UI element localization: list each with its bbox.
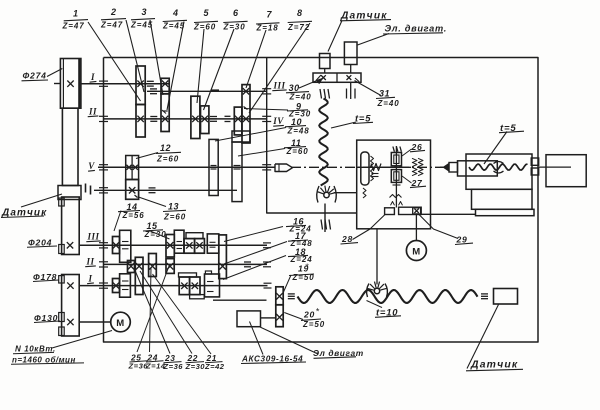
apron to worm vertical shaft (376, 229, 378, 285)
leader 15 (149, 231, 170, 240)
screw hatch lower (321, 220, 323, 230)
svg-text:Z=30: Z=30 (144, 230, 167, 239)
gear 7 tall block (242, 85, 250, 143)
sensor shaft (94, 189, 237, 191)
shaft III lower (79, 244, 267, 246)
electric motor box top (344, 42, 357, 65)
leader 10 (215, 128, 286, 142)
gear 15 (166, 235, 174, 258)
svg-text:Z=60: Z=60 (193, 22, 216, 31)
worm wheel shaft line to apron (334, 192, 357, 194)
clutch feed rod right (481, 293, 488, 295)
gear 13 (126, 180, 139, 200)
shaft IV dash-dot axis (291, 166, 448, 168)
bearing shaft II right wall (262, 115, 271, 117)
gear 27 (391, 170, 401, 183)
svg-text:III: III (86, 232, 99, 242)
leader El dvigat bottom (260, 327, 318, 354)
screw end bearing blocks (531, 158, 539, 165)
sensor box bottom right (494, 289, 518, 305)
leader t=5 left (331, 122, 356, 128)
svg-text:Z=30: Z=30 (185, 362, 206, 371)
pulley F178 F130 (62, 275, 80, 337)
svg-text:20: 20 (303, 310, 315, 320)
gear 31 lower stub (350, 82, 352, 99)
shaft III upper (147, 90, 267, 92)
bearing shaft III upper right wall (262, 88, 271, 90)
apron vertical shaft (395, 146, 397, 208)
shaft I lower (80, 285, 268, 287)
worm wheel (361, 152, 369, 185)
svg-text:Z=40: Z=40 (289, 92, 312, 101)
clutch gear 13 (149, 187, 156, 189)
leader 31 (355, 81, 382, 96)
motor M apron (406, 241, 426, 261)
svg-text:I: I (90, 72, 95, 82)
gear 8 small (234, 107, 242, 135)
gear cluster C1 (113, 279, 120, 293)
gear cluster D1 (179, 277, 189, 295)
bearing shaft II lower right end (263, 261, 271, 263)
marks below gear 27 (393, 184, 401, 186)
screw lower stub (324, 204, 326, 233)
gear cluster E block (205, 274, 220, 297)
gear 26 (391, 153, 401, 166)
svg-text:6: 6 (233, 8, 239, 18)
svg-text:2: 2 (110, 7, 117, 17)
bearing shaft II lower left wall (99, 261, 108, 263)
gear cluster B (207, 234, 219, 253)
svg-text:12: 12 (160, 143, 171, 153)
apron horizontal shaft (357, 166, 411, 168)
bearing sensor shaft left wall (99, 187, 108, 189)
svg-text:Z=18: Z=18 (256, 24, 279, 33)
main motor M (111, 312, 131, 332)
leader 19 (284, 275, 292, 292)
leader motor power (52, 331, 112, 349)
leader 6 (204, 29, 235, 110)
leader 11 (238, 149, 285, 157)
gear 15 right tower (174, 230, 184, 253)
tailstock center line (440, 166, 444, 168)
leader El dvigat top (358, 34, 390, 46)
svg-text:Z=36: Z=36 (163, 362, 184, 371)
hatch above gear 26 (393, 147, 395, 152)
gear cluster D2 (190, 277, 200, 295)
feed rod wavy line (298, 290, 478, 303)
fast motor shaft (261, 317, 276, 319)
bearing shaft V left wall (99, 164, 108, 166)
gear 17 right tall (219, 235, 227, 279)
svg-text:II: II (88, 107, 97, 117)
tailstock nut arcs (494, 162, 504, 164)
svg-text:4: 4 (172, 8, 179, 18)
gear 19 (276, 287, 283, 305)
shaft V axis (98, 166, 275, 168)
svg-text:*: * (316, 307, 320, 317)
leader 13 (139, 197, 167, 207)
gear 3 (161, 78, 169, 94)
rack bar right (399, 207, 422, 214)
leader 9 (244, 109, 288, 111)
leader 22 (140, 271, 192, 354)
leader 8 (249, 23, 310, 113)
gear cluster A collar (186, 233, 203, 239)
svg-text:7: 7 (267, 9, 273, 19)
svg-text:Z=40: Z=40 (377, 99, 400, 108)
leader t=5 right (484, 132, 507, 165)
bearing shaft III lower left wall (99, 242, 108, 244)
rack bar left (385, 208, 395, 215)
svg-text:IV: IV (272, 116, 284, 126)
leader 4 (167, 22, 184, 111)
tailstock body (466, 154, 532, 189)
rack pinion cell (413, 208, 421, 214)
tailstock screw wave (469, 164, 528, 170)
svg-text:1: 1 (73, 9, 79, 19)
shaft II lower (104, 263, 268, 265)
svg-text:M: M (116, 318, 124, 329)
tailstock center tip (444, 164, 450, 172)
leader 24 (150, 268, 152, 352)
sensor box top (320, 54, 331, 69)
svg-text:Z=50: Z=50 (292, 273, 315, 282)
leader 27 (402, 176, 412, 183)
leader 14 (114, 211, 121, 232)
screw hatch upper (320, 89, 322, 99)
svg-text:II: II (85, 257, 94, 267)
svg-text:Эл. двигат.: Эл. двигат. (385, 24, 447, 34)
leader 12 (136, 153, 158, 159)
gear 11 (232, 142, 242, 202)
svg-text:8: 8 (297, 8, 303, 18)
svg-text:M: M (412, 247, 420, 258)
svg-text:Z=60: Z=60 (156, 155, 179, 164)
svg-text:V: V (88, 161, 95, 171)
gear 11 head (232, 131, 250, 142)
bearing shaft II left wall (99, 115, 108, 117)
gear 14 block (113, 237, 120, 254)
svg-text:28: 28 (341, 234, 353, 244)
coupling sensor shaft (85, 184, 87, 193)
worm on screw (324, 192, 329, 197)
pulley F204 (62, 197, 80, 255)
tailstock base (476, 209, 535, 215)
leader AKS (250, 322, 264, 355)
leader 18 (223, 256, 286, 280)
clutch shaft II lower (244, 261, 251, 263)
svg-text:Z=56: Z=56 (122, 211, 145, 220)
gear 20 (276, 305, 283, 327)
leader Datchik bottom (467, 305, 499, 369)
belt F274 (62, 108, 78, 185)
clutch shaft II b (210, 116, 217, 118)
clutch shaft III (150, 88, 157, 90)
leader t=10 (367, 301, 383, 308)
leader 1 (88, 22, 141, 101)
tall idler gear b (149, 254, 157, 277)
leader 20 (284, 313, 303, 320)
leader 3 (150, 20, 163, 95)
gear 4 (161, 94, 169, 132)
svg-text:Z=60: Z=60 (163, 213, 186, 222)
fast traverse motor box (237, 311, 261, 327)
svg-text:Ф274: Ф274 (23, 71, 47, 81)
svg-text:Эл двигат: Эл двигат (313, 348, 364, 358)
svg-text:Z=50: Z=50 (302, 320, 325, 329)
tall idler gear a (135, 257, 143, 294)
clutch gear 19 (288, 293, 295, 295)
svg-text:Z=47: Z=47 (100, 21, 123, 30)
leader 17 (224, 242, 287, 265)
gear 6 (201, 106, 209, 134)
leader 29 (419, 215, 458, 239)
svg-text:3: 3 (142, 7, 148, 17)
gear cluster D collar bottom (190, 295, 205, 299)
clutch shaft I (147, 80, 154, 82)
worm on feed rod (374, 288, 379, 293)
gear 17 mid (166, 259, 174, 274)
gear cluster D collar top (179, 273, 197, 277)
svg-text:Z=48: Z=48 (287, 127, 310, 136)
svg-text:Z=47: Z=47 (62, 22, 85, 31)
bearing shaft V right wall (262, 164, 271, 166)
svg-text:Z=45: Z=45 (130, 21, 153, 30)
leader Datchik left (21, 194, 62, 207)
leader 2 (126, 20, 144, 92)
motor belt shaft (80, 321, 111, 323)
svg-text:5: 5 (204, 8, 210, 18)
clutch shaft II a (150, 116, 157, 118)
svg-text:Z=60: Z=60 (286, 147, 309, 156)
leader 21 (153, 274, 212, 354)
gear 1 block (136, 66, 145, 105)
pulley F274 hub mark (67, 81, 73, 87)
bearing shaft I left wall (99, 80, 108, 82)
svg-text:III: III (272, 81, 285, 91)
svg-text:29: 29 (456, 235, 468, 245)
tailstock mid body (472, 189, 533, 209)
svg-text:I: I (87, 274, 92, 284)
svg-text:31: 31 (379, 89, 390, 99)
leader 5 (197, 29, 204, 103)
svg-text:13: 13 (168, 202, 179, 212)
inner wall (267, 58, 357, 214)
gear 2 block (136, 105, 145, 138)
motor M apron shaft (415, 214, 417, 241)
svg-text:Z=45: Z=45 (162, 22, 185, 31)
sensor box left (58, 186, 81, 200)
clutch shaft III heavy (211, 89, 220, 91)
svg-text:t=5: t=5 (355, 113, 371, 124)
tailstock handwheel box (546, 155, 586, 187)
worm symbol on axis (371, 164, 381, 171)
gear cluster A1 (184, 239, 195, 254)
spring arrows right (412, 158, 417, 162)
leader 23 (134, 268, 170, 354)
gearbox 30 31 (313, 73, 361, 82)
leader 25 (137, 266, 169, 352)
svg-text:*: * (305, 262, 309, 272)
lead screw wavy vertical (319, 99, 328, 186)
clutch shaft II c (225, 115, 231, 117)
leader 28 (353, 215, 386, 240)
gear 5 (191, 96, 200, 138)
bearing shaft I lower right end (264, 282, 272, 284)
gear cluster E collar (205, 271, 211, 274)
leader 26 (402, 149, 412, 156)
svg-text:Z=42: Z=42 (204, 362, 225, 371)
machine casing outline box (104, 58, 539, 343)
leader 16 (224, 227, 283, 242)
bearing shaft III lower right end (263, 242, 271, 244)
leader Datchik top (328, 21, 342, 52)
gear 10 (209, 139, 218, 195)
gear cluster C2 (120, 274, 131, 297)
tailstock quill (458, 161, 498, 176)
leader 7 (246, 30, 266, 88)
shaft I left stub (54, 83, 60, 85)
rail line to tailstock (421, 213, 475, 215)
leader F274 (47, 69, 62, 77)
shaft I (81, 83, 170, 85)
shaft II (104, 118, 267, 120)
pulley F274 (60, 59, 81, 109)
gear cluster A2 (195, 239, 205, 254)
gear 16 small (128, 261, 135, 273)
worm wheel teeth zigzag (371, 156, 374, 181)
gear 19 connecting shaft (213, 299, 267, 301)
gear 12 pair (126, 156, 139, 180)
svg-text:Датчик: Датчик (470, 360, 518, 371)
apron box (357, 140, 431, 229)
overload clutch bullet (275, 164, 293, 172)
leader 30 with arrow (299, 79, 321, 88)
bearing shaft I lower left wall (99, 282, 108, 284)
